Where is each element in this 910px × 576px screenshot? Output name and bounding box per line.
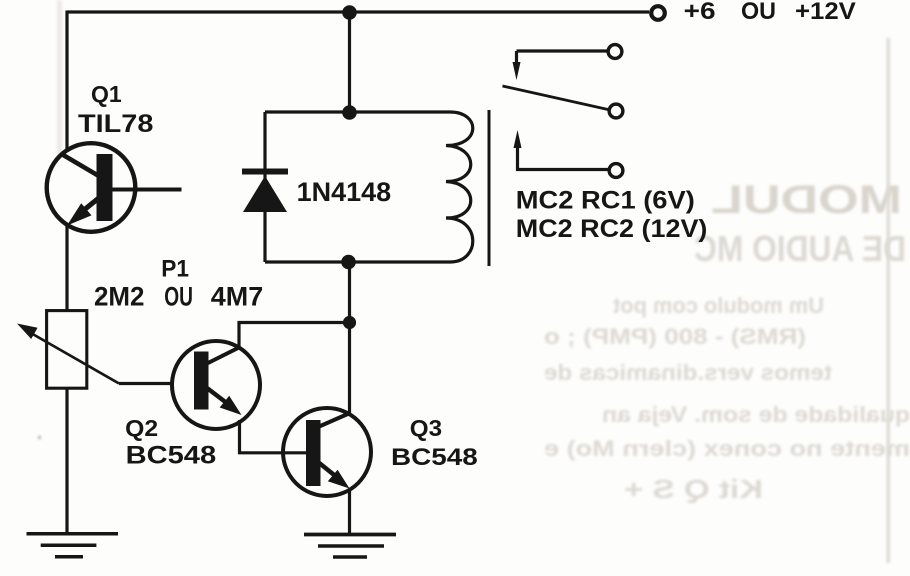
svg-text:MODUL: MODUL [711, 178, 902, 222]
svg-text:BC548: BC548 [126, 442, 217, 470]
svg-text:+12V: +12V [795, 0, 856, 25]
svg-text:+6: +6 [684, 0, 716, 25]
svg-text:1N4148: 1N4148 [297, 177, 392, 207]
svg-text:OU: OU [741, 0, 776, 25]
svg-text:temos vers.dinamicas de: temos vers.dinamicas de [544, 360, 832, 385]
svg-text:BC548: BC548 [391, 444, 478, 471]
svg-text:DE AUDIO MC: DE AUDIO MC [694, 228, 906, 269]
svg-text:2M2: 2M2 [94, 281, 145, 311]
svg-text:(RMS) - 800 (PMP) ; o: (RMS) - 800 (PMP) ; o [544, 324, 806, 349]
svg-text:Um modulo com pot: Um modulo com pot [612, 293, 824, 318]
svg-text:Q3: Q3 [410, 415, 442, 441]
svg-text:Q2: Q2 [125, 415, 158, 441]
svg-text:P1: P1 [161, 256, 189, 283]
svg-text:MC2 RC1 (6V): MC2 RC1 (6V) [516, 187, 695, 215]
svg-text:Kit Q S +: Kit Q S + [624, 474, 763, 504]
svg-text:mente no conex (clern Mo) e: mente no conex (clern Mo) e [544, 436, 910, 461]
svg-text:qualidade de som. Veja an: qualidade de som. Veja an [602, 402, 910, 427]
svg-text:MC2 RC2 (12V): MC2 RC2 (12V) [516, 215, 708, 243]
svg-text:OU: OU [164, 281, 193, 311]
svg-text:TIL78: TIL78 [78, 110, 154, 138]
svg-text:4M7: 4M7 [211, 281, 263, 311]
svg-text:Q1: Q1 [91, 81, 122, 107]
